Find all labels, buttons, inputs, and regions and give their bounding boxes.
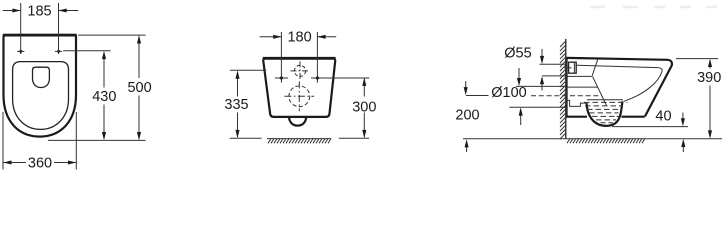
svg-text:360: 360 <box>28 155 52 171</box>
svg-text:430: 430 <box>92 89 116 105</box>
svg-text:390: 390 <box>697 70 721 86</box>
svg-text:200: 200 <box>455 108 479 124</box>
svg-text:Ø55: Ø55 <box>504 46 531 62</box>
svg-text:185: 185 <box>27 4 51 20</box>
svg-text:Ø100: Ø100 <box>491 85 526 101</box>
svg-text:40: 40 <box>655 108 671 124</box>
svg-text:180: 180 <box>287 30 311 46</box>
svg-text:500: 500 <box>127 80 151 96</box>
svg-text:335: 335 <box>224 97 248 113</box>
svg-text:300: 300 <box>352 100 376 116</box>
